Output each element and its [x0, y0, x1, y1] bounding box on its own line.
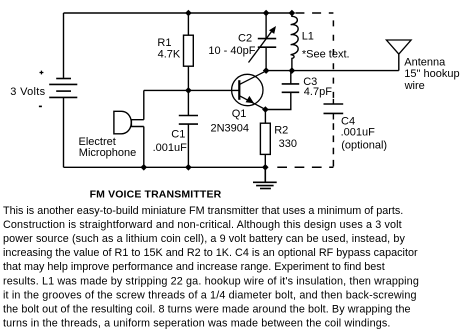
- svg-text:(optional): (optional): [341, 140, 387, 152]
- junction node base: [185, 87, 192, 94]
- battery plus sign: [40, 71, 44, 75]
- inductor L1 coil: [291, 13, 299, 71]
- svg-text:the bolt out of the resulting: the bolt out of the resulting coil. 8 tu…: [3, 303, 411, 315]
- junction node ground R2: [262, 164, 269, 171]
- svg-text:results. L1 was made by stripp: results. L1 was made by stripping 22 ga.…: [3, 275, 419, 287]
- wire C1 bottom: [187, 124, 189, 167]
- capacitor C3 4.7pF: [282, 84, 300, 92]
- wire R1 top: [187, 13, 189, 35]
- dashed wire top to C4: [295, 12, 333, 14]
- junction node top C2: [263, 10, 270, 17]
- Q1 collector line: [240, 71, 266, 84]
- wire microphone top lead: [143, 90, 145, 119]
- svg-text:*See text.: *See text.: [302, 48, 350, 60]
- wire battery negative lead: [63, 97, 65, 167]
- wire C2 top: [265, 13, 267, 39]
- svg-text:power source (such as a lithiu: power source (such as a lithium coin cel…: [3, 233, 405, 245]
- C2 arrowhead: [269, 26, 276, 34]
- svg-text:4.7pF: 4.7pF: [304, 86, 332, 98]
- wire battery positive lead: [63, 13, 65, 78]
- svg-text:wire: wire: [404, 80, 425, 92]
- resistor R1 4.7K: [184, 35, 194, 66]
- Q1 emitter arrowhead: [246, 96, 254, 103]
- dashed wire C4 vertical upper: [332, 20, 334, 99]
- dashed wire C4 vertical lower: [332, 123, 334, 167]
- junction node ground C1: [185, 164, 192, 171]
- wire C4 bottom stub: [332, 113, 334, 119]
- svg-text:increasing the value of R1 to: increasing the value of R1 to 15K and R2…: [3, 247, 418, 259]
- svg-text:L1: L1: [302, 30, 314, 42]
- wire antenna vertical: [398, 54, 400, 71]
- wire R1 bottom to base node: [187, 66, 189, 90]
- resistor R2 330: [260, 123, 270, 154]
- capacitor C1 .001uF: [179, 116, 198, 125]
- Q1 base bar: [238, 80, 240, 100]
- svg-text:C2: C2: [238, 32, 252, 44]
- wire C3 top: [290, 71, 292, 84]
- microphone terminals: [131, 120, 144, 127]
- svg-text:10 - 40pF: 10 - 40pF: [208, 45, 255, 57]
- svg-text:it in the grooves of the screw: it in the grooves of the screw threads o…: [3, 289, 417, 301]
- wire R2 bottom: [264, 154, 266, 167]
- svg-text:turns in the threads, a unifor: turns in the threads, a uniform seperati…: [3, 317, 390, 329]
- battery minus sign: [39, 105, 42, 107]
- wire R2 top: [264, 110, 266, 124]
- wire top rail: [64, 12, 292, 14]
- svg-text:FM VOICE TRANSMITTER: FM VOICE TRANSMITTER: [90, 189, 222, 201]
- junction node collector L1: [289, 67, 296, 74]
- transistor Q1 2N3904 circle: [232, 74, 263, 105]
- antenna symbol: [386, 40, 411, 54]
- svg-text:330: 330: [279, 138, 297, 150]
- capacitor C4 .001uF optional: [324, 104, 344, 113]
- dashed wire bottom to ground node: [277, 166, 333, 168]
- junction node top L1: [289, 10, 296, 17]
- svg-text:This is another easy-to-build: This is another easy-to-build miniature …: [3, 205, 403, 217]
- svg-text:2N3904: 2N3904: [211, 123, 250, 135]
- svg-text:Construction is straightforwar: Construction is straightforward and non-…: [3, 219, 402, 231]
- wire C1 top: [187, 90, 189, 115]
- ground symbol: [253, 167, 277, 188]
- junction node top R1: [185, 10, 192, 17]
- svg-text:15" hookup: 15" hookup: [404, 68, 459, 80]
- junction node emitter: [262, 106, 269, 113]
- svg-text:4.7K: 4.7K: [158, 49, 181, 61]
- wire C2 bottom: [265, 47, 267, 70]
- wire bottom ground rail: [64, 166, 266, 168]
- junction node ground mic: [141, 164, 148, 171]
- svg-text:R2: R2: [274, 125, 288, 137]
- svg-text:Antenna: Antenna: [404, 57, 446, 69]
- svg-text:Microphone: Microphone: [79, 147, 136, 159]
- wire C3 bottom to emitter node: [265, 92, 290, 109]
- Q1 emitter line: [240, 96, 266, 110]
- svg-text:.001uF: .001uF: [341, 126, 376, 138]
- junction node collector C2: [263, 67, 270, 74]
- battery B1 3 Volts: [49, 79, 77, 98]
- svg-text:R1: R1: [157, 37, 171, 49]
- wire microphone bottom lead: [143, 127, 145, 168]
- C2 variable arrow: [249, 31, 272, 62]
- svg-text:Q1: Q1: [232, 108, 247, 120]
- svg-text:.001uF: .001uF: [153, 142, 188, 154]
- wire collector rail to antenna: [266, 70, 399, 72]
- svg-text:3 Volts: 3 Volts: [10, 86, 45, 98]
- wire base node horizontal: [144, 89, 239, 91]
- wire C4 top stub: [332, 99, 334, 104]
- capacitor C2 10-40pF variable: [258, 39, 276, 48]
- svg-text:that may help improve performa: that may help improve performance and in…: [3, 261, 385, 273]
- electret microphone MIC: [114, 111, 131, 134]
- svg-text:C1: C1: [171, 128, 185, 140]
